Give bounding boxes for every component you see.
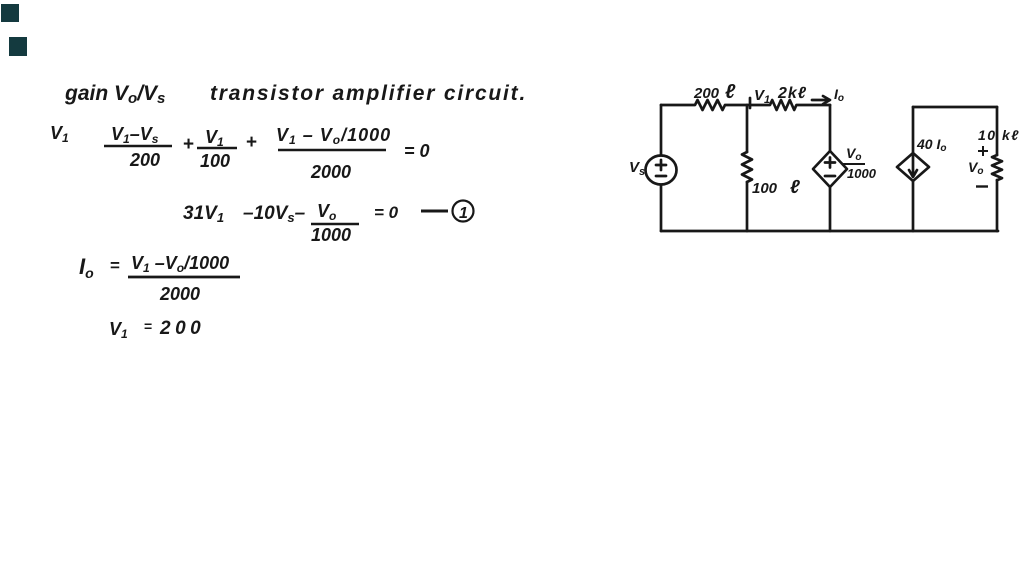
svg-text:2000: 2000 bbox=[159, 284, 200, 304]
resistor 10k (vertical zigzag) bbox=[992, 155, 1002, 180]
diamond1 plus bbox=[825, 158, 835, 168]
svg-text:1000: 1000 bbox=[847, 166, 877, 181]
svg-text:1: 1 bbox=[459, 205, 468, 222]
svg-text:ℓ: ℓ bbox=[790, 177, 800, 198]
wire: loop2 left rail lower bbox=[912, 181, 915, 231]
eq2 long dash bbox=[421, 210, 448, 213]
resistor 100 ohm (vertical zigzag) bbox=[742, 152, 752, 182]
svg-text:2kℓ: 2kℓ bbox=[777, 85, 807, 102]
wire: loop1 left rail bbox=[660, 105, 663, 231]
svg-text:= 0: = 0 bbox=[374, 203, 399, 222]
eq1 bar1 bbox=[104, 145, 172, 148]
wire: diamond1 branch lower bbox=[829, 187, 832, 231]
corner square 2 bbox=[9, 37, 27, 56]
svg-text:200: 200 bbox=[129, 150, 160, 170]
label minus under Vo bbox=[976, 185, 988, 187]
wire: loop1 top rail with 200 and 2k resistors bbox=[661, 100, 830, 110]
Vs minus bbox=[656, 175, 666, 178]
svg-text:–10Vs–: –10Vs– bbox=[243, 203, 306, 225]
diamond2 arrow (down) bbox=[909, 156, 917, 177]
svg-text:1000: 1000 bbox=[311, 225, 351, 245]
svg-text:transistor amplifier circuit.: transistor amplifier circuit. bbox=[210, 82, 527, 105]
eq1 bar2 bbox=[197, 147, 237, 150]
svg-text:=: = bbox=[144, 318, 152, 334]
source Vs (circle) bbox=[646, 156, 677, 185]
eq3 bar bbox=[128, 276, 240, 279]
eq2 bar bbox=[311, 223, 359, 226]
corner square 1 bbox=[1, 4, 19, 22]
svg-text:10 kℓ: 10 kℓ bbox=[978, 127, 1020, 143]
svg-text:100: 100 bbox=[200, 151, 230, 171]
svg-text:200: 200 bbox=[693, 85, 720, 102]
svg-text:100: 100 bbox=[752, 180, 778, 197]
svg-text:+: + bbox=[246, 132, 257, 153]
circled 1 bbox=[453, 201, 474, 222]
svg-text:gain Vo/Vs: gain Vo/Vs bbox=[64, 82, 165, 107]
svg-text:=: = bbox=[110, 256, 120, 275]
node V1 tick bbox=[749, 98, 752, 108]
Io arrow at top bbox=[812, 96, 830, 104]
dependent source Vo/1000 (diamond) bbox=[813, 151, 847, 187]
diamond1 minus bbox=[825, 175, 835, 178]
svg-text:V1–Vs: V1–Vs bbox=[111, 124, 159, 146]
wire: loop2 right rail upper bbox=[996, 107, 999, 155]
wire: bottom rail (shared) bbox=[661, 230, 998, 233]
wire: diamond1 branch upper bbox=[829, 105, 832, 151]
wire: middle branch lower bbox=[746, 182, 749, 231]
eq1 bar3 bbox=[278, 149, 386, 152]
svg-text:ℓ: ℓ bbox=[725, 81, 736, 103]
svg-text:= 0: = 0 bbox=[404, 141, 430, 161]
dependent source 40Io (diamond) bbox=[897, 153, 929, 181]
wire: loop2 right rail lower bbox=[996, 180, 999, 231]
svg-text:200: 200 bbox=[159, 318, 205, 339]
wire: loop2 top rail bbox=[913, 106, 997, 109]
svg-text:+: + bbox=[183, 134, 194, 155]
wire: loop2 left rail upper bbox=[912, 107, 915, 153]
wire: middle branch bbox=[746, 105, 749, 152]
svg-text:2000: 2000 bbox=[310, 162, 351, 182]
Vs plus bbox=[656, 160, 666, 170]
